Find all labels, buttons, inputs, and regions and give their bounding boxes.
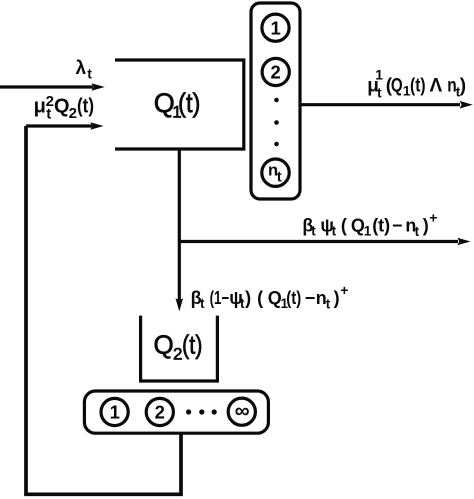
wire drop line from Q1 bottom xyxy=(176,149,184,312)
svg-text:1: 1 xyxy=(375,67,383,83)
wire lambda input arrow xyxy=(0,83,105,91)
wire feedback loop (down, left, up) xyxy=(26,126,181,494)
wire mu2 Q2 feedback input arrow xyxy=(26,122,104,130)
server bank S2 rounded row xyxy=(84,391,268,433)
svg-text:−: − xyxy=(392,216,403,236)
label beta_t (1-psi_t) ( Q1(t) - n_t )+ xyxy=(191,282,349,311)
svg-text:): ) xyxy=(423,216,429,236)
svg-text:t: t xyxy=(46,106,51,123)
svg-text:∞: ∞ xyxy=(235,400,250,423)
wire service output arrow xyxy=(302,101,473,109)
wire overflow branch arrow xyxy=(179,238,470,246)
svg-text:t: t xyxy=(332,224,337,239)
server infinity circle xyxy=(228,398,255,425)
server bank S1 rounded column xyxy=(251,3,300,199)
svg-text:(1−: (1− xyxy=(210,288,230,308)
svg-text:(t): (t) xyxy=(286,288,301,308)
svg-text:(: ( xyxy=(257,288,263,308)
svg-text:(: ( xyxy=(341,216,347,236)
svg-text:t: t xyxy=(277,169,282,186)
svg-text:1: 1 xyxy=(110,402,120,423)
vertical dots xyxy=(274,98,279,147)
server n_t circle xyxy=(262,159,289,186)
svg-text:(t): (t) xyxy=(178,88,201,118)
server 2 circle xyxy=(262,58,289,85)
svg-text:1: 1 xyxy=(364,223,372,238)
svg-text:Q: Q xyxy=(154,330,174,360)
queue Q1 buffer box (open left) xyxy=(115,60,244,149)
svg-text:Q: Q xyxy=(54,96,70,118)
server 1 circle xyxy=(101,398,128,425)
label beta_t psi_t ( Q1(t) - n_t )+ xyxy=(302,210,437,239)
label Q2(t) xyxy=(154,330,203,364)
server 1 circle xyxy=(262,14,289,41)
svg-text:2: 2 xyxy=(69,105,77,122)
svg-text:−: − xyxy=(305,288,316,308)
svg-text:t: t xyxy=(326,297,331,312)
label lambda_t xyxy=(76,58,93,82)
svg-text:2: 2 xyxy=(155,402,165,423)
label Q1(t) xyxy=(154,88,201,122)
svg-text:(t): (t) xyxy=(410,76,426,97)
svg-text:2: 2 xyxy=(271,62,281,83)
svg-text:(t): (t) xyxy=(77,96,94,118)
horizontal dots xyxy=(186,409,217,414)
svg-text:+: + xyxy=(340,282,348,298)
svg-text:t: t xyxy=(311,224,316,239)
svg-text:Q: Q xyxy=(391,76,403,97)
label mu_t^1 (Q1(t) AND n_t) xyxy=(367,67,466,101)
svg-text:): ) xyxy=(334,288,340,308)
svg-text:λ: λ xyxy=(76,58,87,79)
server 2 circle xyxy=(146,398,173,425)
svg-text:): ) xyxy=(245,288,251,308)
queue Q2 buffer box (open top) xyxy=(141,316,218,381)
svg-text:t: t xyxy=(87,66,92,82)
svg-text:μ: μ xyxy=(34,96,46,118)
svg-text:(t): (t) xyxy=(372,216,390,236)
svg-text:1: 1 xyxy=(271,17,281,38)
svg-text:Λ: Λ xyxy=(430,76,443,97)
svg-text:t: t xyxy=(200,296,205,311)
svg-text:t: t xyxy=(415,224,420,239)
svg-text:t: t xyxy=(377,85,382,101)
label mu_t^2 Q_2(t) xyxy=(34,93,94,123)
svg-text:+: + xyxy=(429,210,437,226)
svg-text:): ) xyxy=(460,76,466,97)
svg-text:(t): (t) xyxy=(182,330,203,360)
